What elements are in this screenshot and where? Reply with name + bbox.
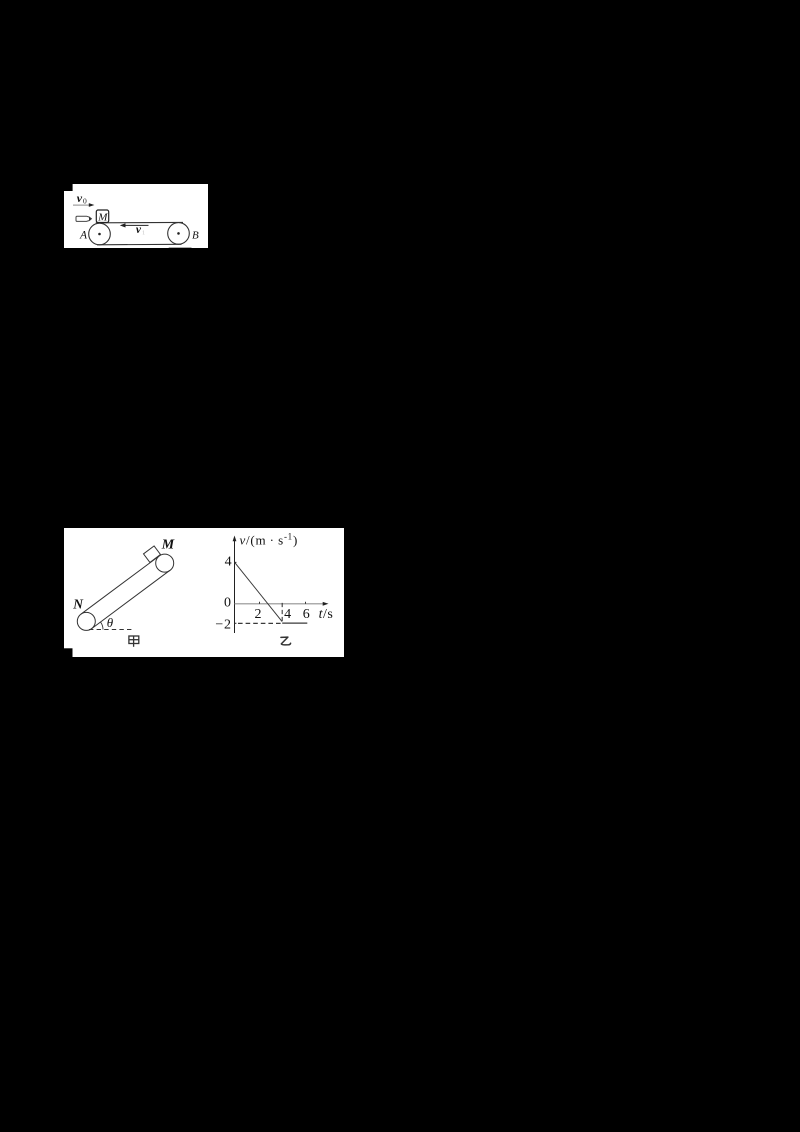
svg-text:v: v xyxy=(136,224,142,236)
svg-text:−2: −2 xyxy=(215,617,231,632)
svg-text:A: A xyxy=(79,230,88,242)
svg-text:6: 6 xyxy=(303,607,310,622)
svg-text:t/s: t/s xyxy=(319,607,334,622)
svg-text:N: N xyxy=(72,596,84,611)
svg-text:0: 0 xyxy=(83,197,87,206)
svg-text:θ: θ xyxy=(107,615,114,630)
svg-text:2: 2 xyxy=(255,607,262,622)
svg-text:0: 0 xyxy=(224,595,231,610)
svg-text:B: B xyxy=(192,229,199,241)
svg-text:M: M xyxy=(97,212,108,224)
svg-text:1: 1 xyxy=(142,229,145,236)
svg-text:v: v xyxy=(77,191,83,205)
svg-text:4: 4 xyxy=(225,555,232,570)
svg-text:4: 4 xyxy=(284,607,291,622)
svg-text:M: M xyxy=(161,538,175,553)
